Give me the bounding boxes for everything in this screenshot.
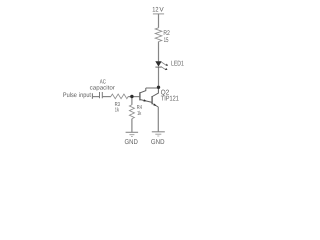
wire emitter to ground <box>157 107 159 132</box>
LED1 arrow 1 head <box>166 64 169 66</box>
svg-text:GND: GND <box>125 139 138 146</box>
wire R4 to ground <box>131 119 133 133</box>
svg-text:GND: GND <box>151 139 165 146</box>
wire collector rail <box>146 87 159 89</box>
Q2 emitter 1 arrow head <box>144 99 147 101</box>
resistor R4 <box>129 105 134 119</box>
svg-text:LED1: LED1 <box>171 61 184 68</box>
wire capacitor to R3 <box>102 96 111 98</box>
wire R2 to LED1 <box>158 42 160 62</box>
LED1 triangle <box>155 61 161 66</box>
capacitor C1 plate right <box>101 92 103 98</box>
svg-text:1k: 1k <box>115 107 119 114</box>
resistor R2 <box>155 28 162 42</box>
LED1 light arrow 2 line <box>161 66 166 70</box>
wire Q2 internal emitter 1 to base 2 <box>140 100 152 103</box>
wire node to R4 <box>131 97 133 105</box>
LED1 arrow 2 head <box>165 68 168 70</box>
node 12V power bar <box>153 13 164 15</box>
svg-text:1k: 1k <box>137 110 141 117</box>
LED1 light arrow 1 line <box>161 62 166 66</box>
svg-text:R2: R2 <box>163 30 170 37</box>
ground GND left <box>126 131 139 133</box>
capacitor C1 plate left <box>99 92 101 98</box>
wire input to capacitor <box>92 96 99 98</box>
resistor R3 <box>111 94 128 99</box>
svg-text:Pulse: Pulse <box>63 92 77 99</box>
wire LED1 to Q2 collector node <box>158 67 160 88</box>
node pulse input terminal <box>91 93 93 99</box>
svg-text:15: 15 <box>164 37 169 44</box>
wire Q2 internal collector 2 <box>152 88 158 96</box>
svg-text:TIP121: TIP121 <box>161 96 179 103</box>
node junction dot collector <box>157 86 160 89</box>
transistor Q2 base bar 2 <box>151 96 153 104</box>
svg-text:12: 12 <box>152 7 159 14</box>
wire 12V rail to R2 <box>158 14 160 28</box>
wire Q2 emitter 2 <box>152 104 158 108</box>
transistor Q2 base bar 1 <box>139 92 141 100</box>
ground GND right <box>152 131 165 133</box>
node junction dot base <box>130 95 133 98</box>
wire R3 to node <box>128 96 132 98</box>
wire Q2 internal collector 1 <box>140 88 146 93</box>
svg-text:input: input <box>79 92 91 99</box>
svg-text:V: V <box>159 7 164 14</box>
Q2 emitter 2 arrow head <box>153 103 156 105</box>
LED1 cathode bar <box>155 66 161 68</box>
svg-text:capacitor: capacitor <box>90 84 115 91</box>
wire base from node to Q2 <box>132 96 140 98</box>
